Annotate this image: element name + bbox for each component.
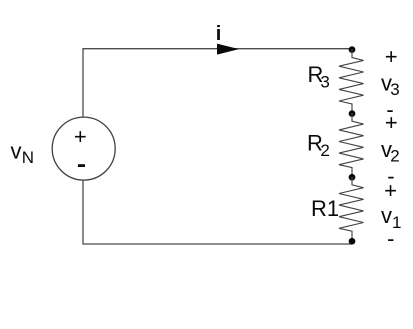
wire top: [83, 49, 352, 117]
node B: [349, 174, 356, 181]
source minus: [78, 164, 85, 167]
wire bottom: [83, 180, 352, 244]
svg-text:N: N: [22, 148, 34, 167]
svg-text:i: i: [216, 23, 222, 45]
svg-text:3: 3: [320, 73, 329, 92]
node A: [349, 110, 356, 117]
resistor R2: [339, 113, 364, 177]
svg-text:v: v: [381, 203, 392, 228]
svg-text:2: 2: [320, 141, 329, 160]
voltage source vN: [52, 117, 115, 180]
node bottom: [349, 238, 356, 245]
resistor R3: [339, 49, 364, 113]
resistor R1: [339, 177, 364, 244]
current arrow: [217, 44, 239, 55]
svg-text:R1: R1: [311, 196, 339, 221]
svg-text:-: -: [387, 226, 394, 251]
svg-text:v: v: [11, 138, 22, 163]
svg-text:+: +: [384, 178, 397, 203]
svg-text:+: +: [74, 124, 87, 149]
svg-text:+: +: [385, 44, 398, 69]
svg-text:+: +: [385, 110, 398, 135]
node top: [349, 46, 356, 53]
